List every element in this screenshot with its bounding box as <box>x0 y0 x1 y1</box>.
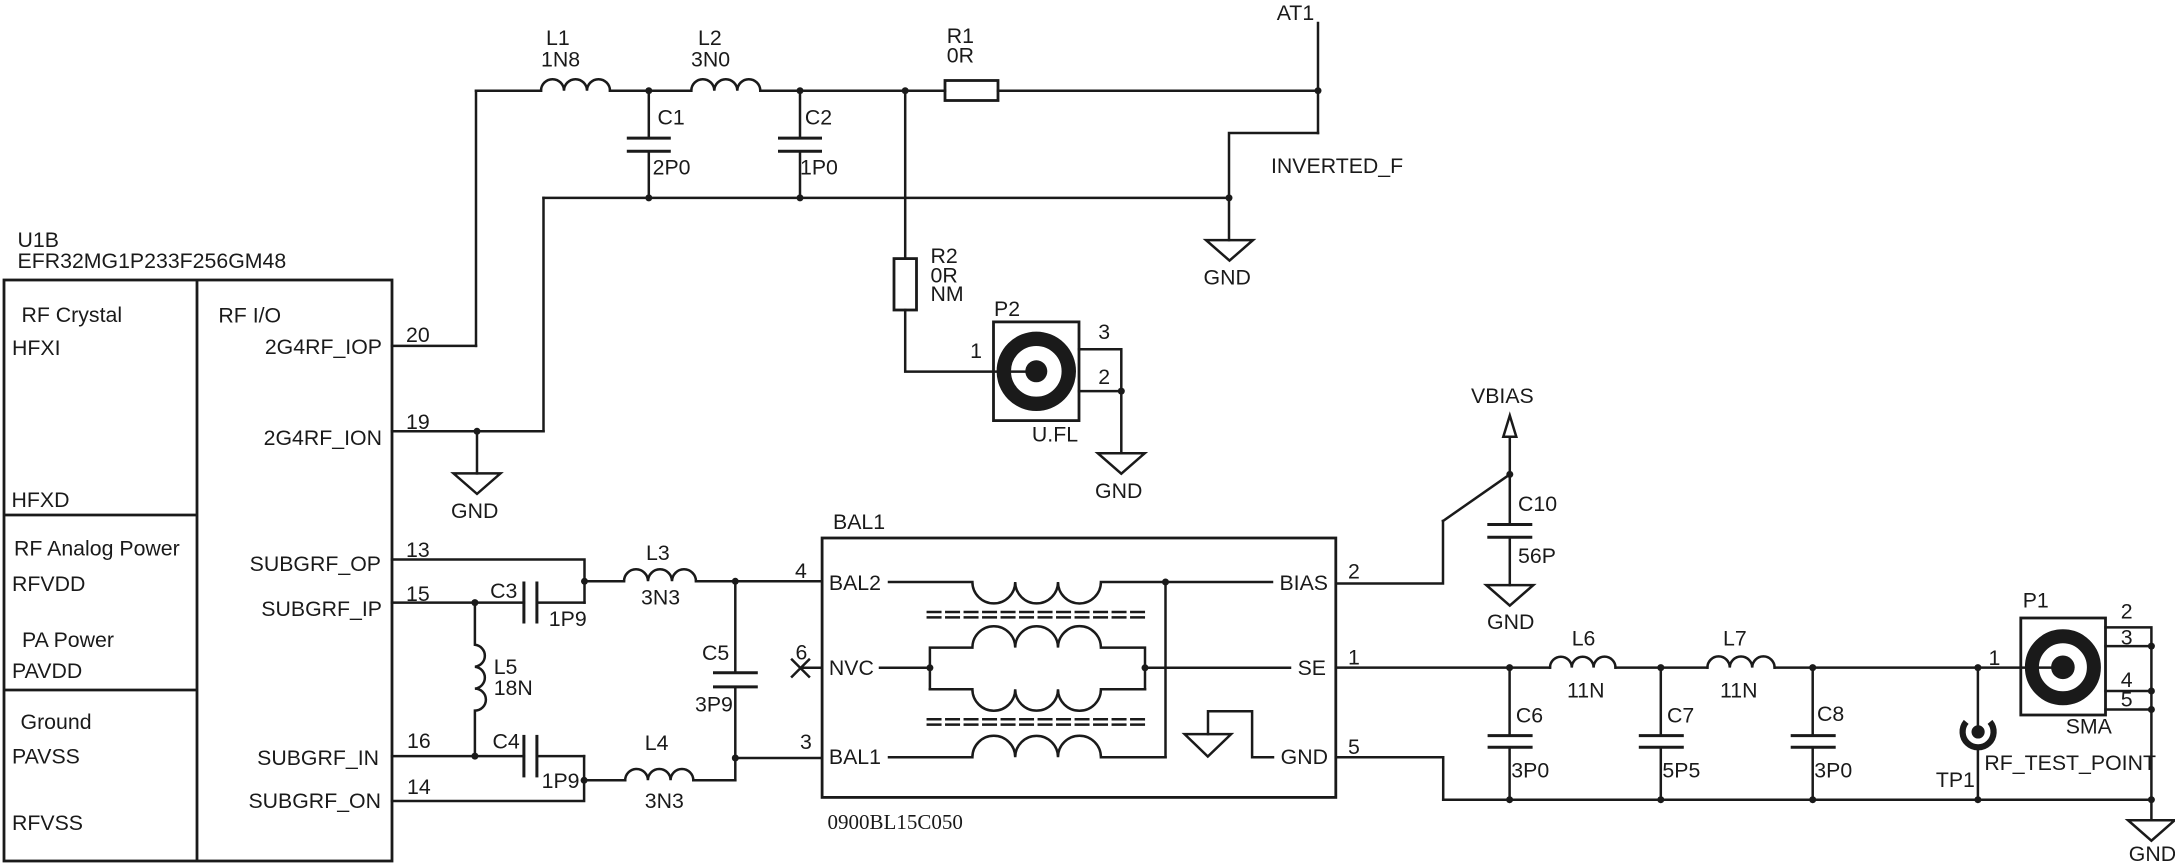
wire L4 to C5 riser <box>693 779 735 782</box>
svg-text:2: 2 <box>2121 599 2133 623</box>
junction P1 gnd <box>2148 796 2155 803</box>
svg-text:RF Crystal: RF Crystal <box>22 303 123 327</box>
wire P1 pin4 stub <box>2106 690 2152 693</box>
svg-text:GND: GND <box>1095 479 1142 503</box>
svg-text:P2: P2 <box>994 297 1020 321</box>
svg-text:20: 20 <box>406 323 430 347</box>
capacitor C2 <box>778 91 822 198</box>
winding NVC lower <box>930 689 1145 710</box>
capacitor C3 <box>524 582 585 624</box>
junction P2 pins 2-3 <box>1118 388 1125 395</box>
resistor R2 <box>894 259 917 310</box>
inductor L5 <box>475 603 486 757</box>
svg-text:RF_TEST_POINT: RF_TEST_POINT <box>1984 751 2156 775</box>
wire L6 to L7 <box>1616 666 1708 669</box>
junction SE bracket <box>1142 664 1149 671</box>
svg-text:GND: GND <box>1487 610 1534 634</box>
wire L4 lead <box>584 779 625 782</box>
svg-text:U.FL: U.FL <box>1032 423 1078 447</box>
no-connect X on NVC pin 6 <box>792 660 822 677</box>
wire P2 pin2 stub <box>1079 390 1121 393</box>
wire P1 pin2 stub <box>2106 627 2152 799</box>
junction NVC bracket <box>926 664 933 671</box>
core dashes lower <box>928 719 1146 724</box>
junction P1 pin4 <box>2148 688 2155 695</box>
junction C2 top <box>797 87 804 94</box>
svg-text:SUBGRF_ON: SUBGRF_ON <box>248 789 381 813</box>
svg-text:1: 1 <box>970 339 982 363</box>
capacitor C7 <box>1639 668 1684 800</box>
test point TP1 <box>1963 668 1994 800</box>
junction C1 top <box>645 87 652 94</box>
wire pin15 stub <box>392 601 524 604</box>
wire P1 pin5 stub <box>2106 708 2152 711</box>
svg-text:SUBGRF_IP: SUBGRF_IP <box>261 597 382 621</box>
svg-text:GND: GND <box>2129 842 2175 866</box>
svg-text:HFXD: HFXD <box>12 488 70 512</box>
junction AT1 <box>1315 87 1322 94</box>
svg-text:1P9: 1P9 <box>549 607 587 631</box>
wire top rail left <box>476 89 541 92</box>
svg-text:TP1: TP1 <box>1936 768 1975 792</box>
svg-text:3P9: 3P9 <box>695 693 733 717</box>
capacitor C8 <box>1791 668 1836 800</box>
svg-text:5: 5 <box>1348 735 1360 759</box>
wire L3 to BAL2 <box>696 580 822 583</box>
capacitor C4 <box>524 735 584 778</box>
svg-text:RF Analog Power: RF Analog Power <box>14 537 180 561</box>
junction TP1 top <box>1974 664 1981 671</box>
svg-text:11N: 11N <box>1720 679 1758 703</box>
junction C10 top <box>1506 471 1513 478</box>
svg-text:1: 1 <box>1989 646 2001 670</box>
svg-text:1N8: 1N8 <box>541 48 580 72</box>
svg-text:BAL2: BAL2 <box>829 571 881 595</box>
internal ground flag (BAL1 GND pin) <box>1185 711 1273 757</box>
svg-text:VBIAS: VBIAS <box>1471 384 1534 408</box>
junction L5 top <box>471 599 478 606</box>
junction C7 top <box>1657 664 1664 671</box>
wire L7 to P1 <box>1775 666 2063 669</box>
svg-text:2P0: 2P0 <box>653 156 691 180</box>
wire bottom ground rail <box>1443 798 2151 801</box>
wire BIAS to BAL1 vertical <box>1164 582 1167 757</box>
inductor L4 <box>625 769 693 780</box>
svg-text:C2: C2 <box>805 106 832 130</box>
junction BIAS-BAL2 <box>1162 579 1169 586</box>
power symbol VBIAS arrow <box>1503 416 1516 437</box>
inductor L6 <box>1550 657 1616 668</box>
wire pin20 stub <box>392 345 476 348</box>
inductor L7 <box>1707 656 1774 667</box>
junction P1 pin5 <box>2148 706 2155 713</box>
junction L5 bottom <box>471 753 478 760</box>
wire gnd drop <box>476 431 479 473</box>
junction P1 pin3 <box>2148 643 2155 650</box>
svg-text:C6: C6 <box>1516 704 1543 728</box>
junction C6 top <box>1506 664 1513 671</box>
svg-text:2: 2 <box>1098 365 1110 389</box>
capacitor C5 <box>713 581 758 780</box>
svg-text:L7: L7 <box>1723 627 1747 651</box>
svg-text:C10: C10 <box>1518 492 1557 516</box>
wire P1 gnd drop <box>2150 800 2153 821</box>
ground symbol (P1) <box>2128 820 2175 841</box>
wire gnd drop inverted-f <box>1228 198 1231 240</box>
svg-text:SUBGRF_IN: SUBGRF_IN <box>257 746 379 770</box>
balun BAL1 body <box>822 538 1336 797</box>
junction pin19-gnd <box>474 428 481 435</box>
wire R2 bottom lead <box>905 310 1036 372</box>
connector P2 U.FL <box>994 322 1080 421</box>
wire BAL1 pin5 stub <box>1336 757 1443 800</box>
svg-text:4: 4 <box>795 559 807 583</box>
junction L4 input <box>581 777 588 784</box>
svg-text:11N: 11N <box>1567 679 1605 703</box>
inductor L3 <box>624 569 696 581</box>
wire P1 pin3 stub <box>2106 645 2152 648</box>
wire P2 pin3 stub <box>1079 349 1121 391</box>
svg-text:RFVDD: RFVDD <box>12 572 85 596</box>
svg-text:C1: C1 <box>658 106 685 130</box>
svg-text:1P0: 1P0 <box>800 156 838 180</box>
wire pin14 stub <box>392 756 584 801</box>
svg-text:AT1: AT1 <box>1277 1 1314 25</box>
svg-text:SUBGRF_OP: SUBGRF_OP <box>250 552 381 576</box>
svg-text:PA Power: PA Power <box>22 628 114 652</box>
wire L3 lead <box>585 580 625 583</box>
svg-text:3N3: 3N3 <box>641 586 680 610</box>
svg-text:2G4RF_ION: 2G4RF_ION <box>264 426 382 450</box>
svg-text:2G4RF_IOP: 2G4RF_IOP <box>265 335 382 359</box>
junction inverted-f gnd <box>1226 194 1233 201</box>
capacitor C1 <box>627 91 671 198</box>
svg-text:GND: GND <box>451 499 498 523</box>
svg-text:3N0: 3N0 <box>691 48 730 72</box>
svg-text:GND: GND <box>1281 745 1328 769</box>
junction C8 top <box>1809 664 1816 671</box>
svg-text:INVERTED_F: INVERTED_F <box>1271 154 1403 178</box>
wire SE internal <box>1145 667 1290 670</box>
svg-text:18N: 18N <box>494 676 533 700</box>
wire P2 gnd drop <box>1120 391 1123 453</box>
wire VBIAS lead <box>1509 437 1512 475</box>
junction L3 input <box>581 578 588 585</box>
winding BAL2 <box>889 582 1272 603</box>
svg-text:3P0: 3P0 <box>1511 758 1549 782</box>
svg-text:L1: L1 <box>546 26 570 50</box>
svg-text:RFVSS: RFVSS <box>12 811 83 835</box>
inductor L2 <box>691 79 760 91</box>
winding BAL1 <box>889 736 1166 757</box>
wire L1 to L2 <box>610 89 691 92</box>
resistor R1 <box>945 81 998 101</box>
junction C1 bottom <box>645 194 652 201</box>
svg-text:L6: L6 <box>1572 627 1596 651</box>
svg-text:1: 1 <box>1348 646 1360 670</box>
junction C6 bottom <box>1506 796 1513 803</box>
junction C2 bottom <box>797 194 804 201</box>
junction BAL1 pin3 <box>732 755 739 762</box>
ground symbol (2G4RF_ION) <box>454 473 501 494</box>
junction C5 top <box>732 578 739 585</box>
connector P1 SMA <box>2021 618 2106 715</box>
svg-text:L2: L2 <box>698 26 722 50</box>
wire to BAL1 pin3 <box>735 757 822 760</box>
svg-text:5P5: 5P5 <box>1662 758 1700 782</box>
wire AT1 vertical <box>1317 23 1320 133</box>
svg-text:RF I/O: RF I/O <box>218 304 281 328</box>
svg-text:BIAS: BIAS <box>1279 571 1328 595</box>
junction C8 bottom <box>1809 796 1816 803</box>
wire L2 to R1 <box>760 89 945 92</box>
svg-text:0900BL15C050: 0900BL15C050 <box>828 810 963 834</box>
wire VBIAS diagonal <box>1443 474 1510 521</box>
svg-text:PAVDD: PAVDD <box>12 659 82 683</box>
capacitor C6 <box>1488 668 1533 800</box>
svg-text:L4: L4 <box>645 731 669 755</box>
svg-text:NVC: NVC <box>829 656 874 680</box>
junction C7 bottom <box>1657 796 1664 803</box>
IC U1B EFR32MG1P233F256GM48 body <box>4 280 392 861</box>
svg-text:NM: NM <box>931 282 964 306</box>
svg-text:SMA: SMA <box>2066 715 2113 739</box>
svg-text:L3: L3 <box>646 541 670 565</box>
svg-text:56P: 56P <box>1518 544 1556 568</box>
svg-text:HFXI: HFXI <box>12 336 61 360</box>
core dashes upper <box>928 612 1146 617</box>
wire NVC lead <box>880 667 930 670</box>
svg-text:2: 2 <box>1348 560 1360 584</box>
wire R1 to AT1 <box>998 89 1318 92</box>
wire pin16 stub <box>392 755 524 758</box>
svg-text:Ground: Ground <box>21 710 92 734</box>
svg-text:3: 3 <box>800 730 812 754</box>
svg-text:16: 16 <box>407 729 431 753</box>
svg-text:P1: P1 <box>2023 589 2049 613</box>
svg-text:6: 6 <box>796 640 808 664</box>
junction R2 top <box>902 87 909 94</box>
wire SE rail to L6 <box>1336 666 1550 669</box>
wire pin20 riser <box>475 91 478 346</box>
svg-text:C8: C8 <box>1817 702 1844 726</box>
capacitor C10 <box>1487 474 1532 585</box>
svg-text:BAL1: BAL1 <box>829 745 881 769</box>
svg-text:3: 3 <box>1098 320 1110 344</box>
svg-text:C3: C3 <box>490 579 517 603</box>
wire inverted-f jog <box>1229 133 1318 198</box>
ground symbol (INVERTED_F) <box>1206 240 1253 261</box>
junction TP1 bottom <box>1974 796 1981 803</box>
wire pin19 riser <box>542 198 545 431</box>
wire pin13 stub <box>392 560 585 603</box>
ground symbol (P2) <box>1098 453 1145 474</box>
svg-text:SE: SE <box>1298 656 1326 680</box>
wire R2 top lead <box>904 91 907 259</box>
svg-text:1P9: 1P9 <box>542 769 580 793</box>
wire BIAS pin2 stub <box>1336 521 1443 584</box>
svg-text:14: 14 <box>407 775 431 799</box>
svg-text:3P0: 3P0 <box>1814 758 1852 782</box>
svg-text:C5: C5 <box>702 641 729 665</box>
wire bottom rail <box>544 197 1230 200</box>
svg-text:C4: C4 <box>492 730 519 754</box>
svg-text:GND: GND <box>1204 265 1251 289</box>
svg-text:PAVSS: PAVSS <box>12 745 80 769</box>
svg-text:BAL1: BAL1 <box>833 510 885 534</box>
svg-text:C7: C7 <box>1667 704 1694 728</box>
winding NVC upper <box>930 626 1145 689</box>
wire pin19 stub <box>392 430 544 433</box>
svg-text:0R: 0R <box>947 44 974 68</box>
svg-text:3N3: 3N3 <box>645 789 684 813</box>
ground symbol (C10) <box>1486 585 1533 606</box>
svg-text:EFR32MG1P233F256GM48: EFR32MG1P233F256GM48 <box>18 249 287 273</box>
inductor L1 <box>541 79 610 91</box>
